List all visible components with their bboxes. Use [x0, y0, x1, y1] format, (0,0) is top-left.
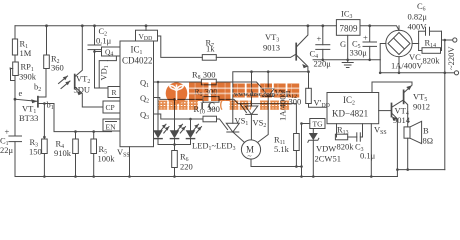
- wire LED cathode bus: [158, 144, 191, 146]
- thyristor VS1: [226, 116, 248, 143]
- speaker B: [404, 121, 433, 169]
- svg-text:3DU: 3DU: [74, 85, 91, 95]
- terminal ~220V lower: [445, 71, 459, 75]
- IC2 KD-4821 box: [327, 93, 379, 124]
- svg-text:KD−4821: KD−4821: [332, 109, 368, 119]
- pin Q3: [140, 110, 203, 122]
- svg-text:CP: CP: [106, 103, 115, 112]
- watermark big text: [189, 83, 299, 102]
- pin Q4: [102, 47, 121, 58]
- wire ac return: [379, 39, 446, 170]
- svg-text:820k: 820k: [337, 142, 355, 152]
- svg-text:0.1μ: 0.1μ: [96, 36, 112, 46]
- pin G ground: [340, 35, 353, 67]
- svg-text:330μ: 330μ: [350, 48, 368, 58]
- wire left rail: [14, 26, 16, 177]
- watermark logo tulip: [170, 85, 184, 101]
- pin R: [108, 87, 120, 98]
- svg-text:e: e: [19, 88, 23, 98]
- resistor R8: [192, 70, 263, 90]
- resistor R9: [194, 87, 296, 134]
- wire b1 to EN bus: [44, 104, 111, 132]
- resistor R2: [44, 24, 64, 72]
- svg-text:820k: 820k: [423, 56, 441, 66]
- LED1: [153, 82, 169, 145]
- resistor R6: [172, 143, 193, 178]
- svg-text:R8 300: R8 300: [192, 70, 215, 82]
- thyristor VS3: [258, 72, 289, 143]
- svg-text:100k: 100k: [98, 154, 116, 164]
- transistor VT1 BT33 unijunction: [15, 69, 54, 140]
- resistor R11: [274, 134, 299, 168]
- bridge rectifier VC: [386, 26, 424, 74]
- svg-text:1k: 1k: [206, 44, 215, 54]
- potentiometer RP1: [10, 62, 37, 82]
- capacitor C6: [408, 1, 442, 51]
- svg-text:360: 360: [51, 63, 64, 73]
- resistor R12: [286, 70, 330, 109]
- svg-text:400V: 400V: [408, 22, 428, 32]
- svg-text:8Ω: 8Ω: [423, 136, 434, 146]
- wire bridge left vertex: [380, 44, 386, 60]
- svg-text:7809: 7809: [340, 24, 359, 34]
- resistor R10: [194, 104, 228, 130]
- resistor R14: [419, 31, 442, 65]
- transistor VT5 9012: [372, 82, 430, 127]
- svg-text:0.82μ: 0.82μ: [408, 12, 428, 22]
- svg-text:1M: 1M: [20, 48, 32, 58]
- svg-text:220μ: 220μ: [314, 59, 332, 69]
- svg-text:I: I: [200, 101, 204, 112]
- terminal ~220V upper: [442, 38, 457, 70]
- wire IC1 Vss to bottom rail: [117, 147, 131, 178]
- svg-text:BT33: BT33: [19, 113, 38, 123]
- svg-text:1A/400V: 1A/400V: [391, 60, 424, 70]
- svg-text:~220V: ~220V: [446, 46, 456, 70]
- transistor VT4 9014: [379, 100, 411, 170]
- resistor R13: [335, 124, 354, 152]
- capacitor C3: [348, 124, 376, 161]
- resistor R7: [158, 36, 297, 60]
- svg-text:C: C: [208, 101, 216, 112]
- svg-text:LED1~LED3: LED1~LED3: [192, 141, 236, 153]
- svg-text:R10 300: R10 300: [194, 104, 220, 116]
- wire speaker return: [396, 168, 445, 176]
- svg-text:9014: 9014: [393, 115, 411, 125]
- svg-text:220: 220: [180, 162, 193, 172]
- pin VSS: [370, 124, 387, 178]
- watermark logo circle: [166, 82, 188, 104]
- svg-text:0.1μ: 0.1μ: [360, 151, 376, 161]
- motor M: [241, 140, 301, 167]
- wire dc common: [313, 59, 380, 62]
- svg-text:+: +: [363, 33, 368, 43]
- svg-text:B: B: [423, 126, 429, 136]
- pin EN: [103, 119, 120, 132]
- zener diode VDW 2CW51: [308, 129, 341, 178]
- resistor R5: [91, 130, 115, 178]
- svg-text:TG: TG: [313, 120, 324, 129]
- resistor R4: [54, 130, 78, 178]
- svg-text:9013: 9013: [263, 43, 280, 53]
- capacitor C5: [350, 24, 377, 59]
- svg-text:www.dzsc.com: www.dzsc.com: [234, 91, 276, 98]
- wire top supply rail: [15, 26, 399, 31]
- node e junction: [14, 88, 23, 101]
- LED3: [186, 119, 202, 145]
- svg-text:390k: 390k: [19, 72, 37, 82]
- watermark stripes: [188, 87, 301, 94]
- capacitor C4: [310, 24, 332, 68]
- pin Q1: [140, 78, 201, 90]
- watermark slogan: [159, 101, 290, 113]
- capacitor C2: [88, 24, 112, 88]
- svg-text:5.1k: 5.1k: [274, 144, 290, 154]
- resistor R1: [12, 39, 31, 59]
- svg-text:910k: 910k: [54, 148, 72, 158]
- svg-text:EN: EN: [106, 123, 117, 132]
- thyristor VS2: [245, 72, 266, 140]
- wire SCR anode rail: [233, 70, 308, 123]
- pin CP: [103, 101, 120, 113]
- pin VDD: [136, 24, 158, 42]
- svg-text:+: +: [317, 34, 322, 44]
- pin TG: [300, 119, 325, 129]
- svg-text:G: G: [340, 39, 346, 49]
- pin Q2: [140, 93, 203, 105]
- svg-text:2CW51: 2CW51: [315, 154, 341, 164]
- wire bottom rail: [15, 176, 397, 178]
- wire TG sense vertical: [300, 124, 303, 178]
- transistor VT3 9013: [263, 24, 309, 71]
- capacitor C1: [0, 127, 22, 156]
- svg-text:9012: 9012: [413, 102, 430, 112]
- LED2: [170, 99, 186, 144]
- svg-text:300: 300: [289, 97, 302, 107]
- resistor R3: [29, 137, 47, 178]
- svg-text:150: 150: [29, 147, 42, 157]
- IC1 CD4022 box: [120, 41, 154, 147]
- svg-text:VDW: VDW: [316, 144, 336, 154]
- phototransistor VT2 3DU: [59, 24, 104, 107]
- svg-text:22μ: 22μ: [0, 145, 14, 155]
- diode VD1: [99, 56, 117, 88]
- svg-text:R: R: [112, 88, 117, 97]
- svg-text:CD4022: CD4022: [122, 56, 153, 66]
- IC3 7809: [336, 9, 360, 36]
